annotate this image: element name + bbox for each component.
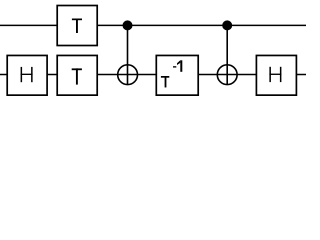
wire CNOT1 vertical connector — [127, 25, 129, 84]
wire CNOT2 vertical connector — [226, 25, 228, 84]
CNOT target 1 circle-plus on bottom wire — [118, 65, 138, 85]
control dot 2 on top wire — [222, 20, 232, 30]
gate H1 bottom-left Hadamard box — [7, 55, 47, 95]
gate H2 bottom-right Hadamard box — [256, 55, 296, 95]
gate T2 bottom T box — [57, 55, 97, 95]
gate T1 top T box — [57, 6, 97, 46]
control dot 1 on top wire — [123, 20, 133, 30]
CNOT target 2 circle-plus on bottom wire — [217, 65, 237, 85]
wire bottom qubit line — [0, 74, 306, 76]
gate Tdg T-inverse box — [156, 55, 198, 95]
wire top qubit line — [0, 24, 306, 26]
